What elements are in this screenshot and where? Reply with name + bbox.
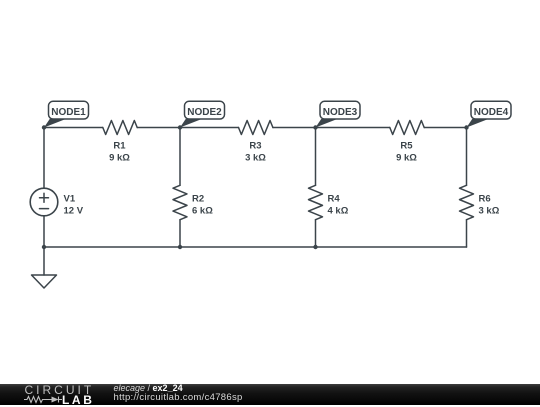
CircuitLab logo resistor-diode glyph [23,395,63,404]
junction dot bottom R2 [178,245,182,249]
wire bottom bus [44,246,467,248]
footer line 1: elecage / ex2_24 [114,383,183,393]
svg-text:3 kΩ: 3 kΩ [479,205,500,216]
svg-text:9 kΩ: 9 kΩ [109,153,130,164]
wire V1 bottom to ground junction [43,216,45,247]
wire top segment NODE1 to R1 [44,127,103,129]
V1 minus sign [40,208,49,210]
wire ground junction to ground symbol [43,247,45,275]
junction dot NODE4 [464,125,468,129]
svg-text:NODE4: NODE4 [474,107,509,118]
junction dot NODE3 [313,125,317,129]
wire NODE4 vertical to R6 [466,128,468,186]
resistor R6 zigzag [460,185,474,219]
V1 plus sign [40,193,49,202]
node NODE1 flag box [49,101,89,119]
node NODE3 flag box [320,101,360,119]
junction dot NODE2 [178,125,182,129]
svg-text:R6: R6 [479,193,491,204]
node NODE2 flag box [185,101,225,119]
footer bar [0,384,540,405]
node NODE4 flag tail [467,119,489,128]
resistor R2 zigzag [173,185,187,219]
CircuitLab logo wordmark CIRCUIT [25,384,95,396]
wire left vertical NODE1 to V1 top [43,128,45,189]
wire top segment R3 to R5 [273,127,390,129]
svg-text:NODE1: NODE1 [51,107,86,118]
ground symbol [32,275,57,288]
node NODE2 flag tail [180,119,202,128]
wire top segment R5 to NODE4 [424,127,466,129]
svg-text:V1: V1 [64,193,76,204]
resistor R5 zigzag [390,121,424,135]
wire R2 to bottom bus [179,220,181,247]
node NODE4 flag box [471,101,511,119]
resistor R1 zigzag [103,121,137,135]
svg-text:3 kΩ: 3 kΩ [245,153,266,164]
wire NODE2 vertical to R2 [179,128,181,186]
svg-text:R2: R2 [192,193,204,204]
svg-text:NODE2: NODE2 [187,107,222,118]
junction dot bottom R4 [313,245,317,249]
svg-text:R1: R1 [113,140,126,151]
svg-text:R4: R4 [328,193,341,204]
CircuitLab logo LAB [62,394,94,406]
junction dot NODE1 [42,125,46,129]
resistor R3 zigzag [239,121,273,135]
voltage source V1 circle [30,188,58,216]
svg-text:NODE3: NODE3 [323,107,358,118]
wire R4 to bottom bus [315,220,317,247]
svg-text:6 kΩ: 6 kΩ [192,205,213,216]
footer line 2: url [114,393,243,404]
wire R6 to bottom bus [466,220,468,247]
junction dot bottom ground [42,245,46,249]
svg-text:9 kΩ: 9 kΩ [396,153,417,164]
resistor R4 zigzag [309,185,323,219]
wire top segment R1 to R3 [137,127,238,129]
node NODE1 flag tail [44,119,66,128]
svg-text:12 V: 12 V [64,205,84,216]
wire NODE3 vertical to R4 [315,128,317,186]
svg-text:R3: R3 [249,140,261,151]
svg-text:R5: R5 [400,140,413,151]
svg-text:4 kΩ: 4 kΩ [328,205,349,216]
node NODE3 flag tail [316,119,338,128]
